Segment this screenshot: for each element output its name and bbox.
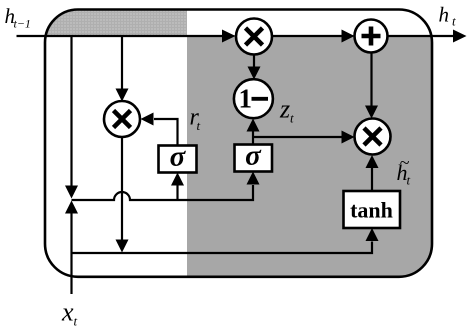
label h(t-1) — [5, 4, 31, 31]
svg-text:t: t — [407, 173, 411, 188]
label h-tilde(t) — [397, 153, 411, 188]
cell body rounded rectangle — [45, 10, 432, 277]
tanh box — [344, 191, 401, 228]
multiply node left (reset multiply) — [104, 101, 140, 137]
label r(t) — [190, 105, 201, 134]
label h(t) — [439, 3, 457, 29]
wire branch up to reset sigma — [171, 173, 184, 201]
wire gate feed line with hop — [72, 172, 260, 201]
wire update sigma output to 1-minus — [247, 119, 260, 145]
cell border — [45, 10, 432, 277]
wire plus to h(t) output — [388, 30, 467, 43]
wire reset multiply output down — [116, 137, 129, 253]
svg-text:tanh: tanh — [350, 198, 393, 223]
wire h branch down to reset multiply — [116, 36, 129, 102]
svg-text:x: x — [61, 298, 74, 327]
svg-text:σ: σ — [170, 141, 187, 173]
svg-text:t: t — [197, 118, 201, 133]
wire tanh feed line — [72, 228, 379, 253]
svg-text:1: 1 — [239, 84, 253, 114]
wire top multiply down to 1-minus — [248, 55, 261, 80]
svg-text:t: t — [74, 314, 78, 329]
wire z branch to second multiply — [253, 131, 355, 144]
wire plus down to second multiply — [365, 53, 378, 119]
sigma box (reset gate) — [159, 141, 197, 173]
multiply node top (reset gate applied to h) — [236, 19, 272, 55]
1-minus node — [234, 79, 273, 118]
wire multiply to plus — [272, 30, 355, 43]
svg-text:z: z — [279, 95, 290, 124]
wire reset sigma output to multiply — [141, 113, 178, 146]
svg-text:~: ~ — [400, 153, 410, 173]
multiply node right (update multiply) — [355, 119, 391, 155]
svg-text:σ: σ — [245, 140, 262, 172]
svg-text:t: t — [452, 14, 456, 29]
plus node — [355, 20, 388, 53]
wire tanh output to second multiply — [366, 155, 379, 191]
label x(t) — [61, 298, 78, 329]
wire h branch down at x=71.5 — [65, 36, 78, 199]
shaded strip (top-left, above h-line) — [45, 10, 187, 37]
wire x(t) input up at x=71.5 — [65, 201, 78, 295]
svg-text:t−1: t−1 — [14, 17, 31, 31]
label z(t) — [279, 95, 294, 126]
svg-text:t: t — [290, 111, 294, 126]
svg-text:h: h — [439, 3, 450, 27]
sigma box (update gate) — [235, 140, 273, 172]
wire h(t-1) input to first multiply — [17, 30, 236, 43]
shaded region (right of gate boundary) — [187, 35, 432, 277]
